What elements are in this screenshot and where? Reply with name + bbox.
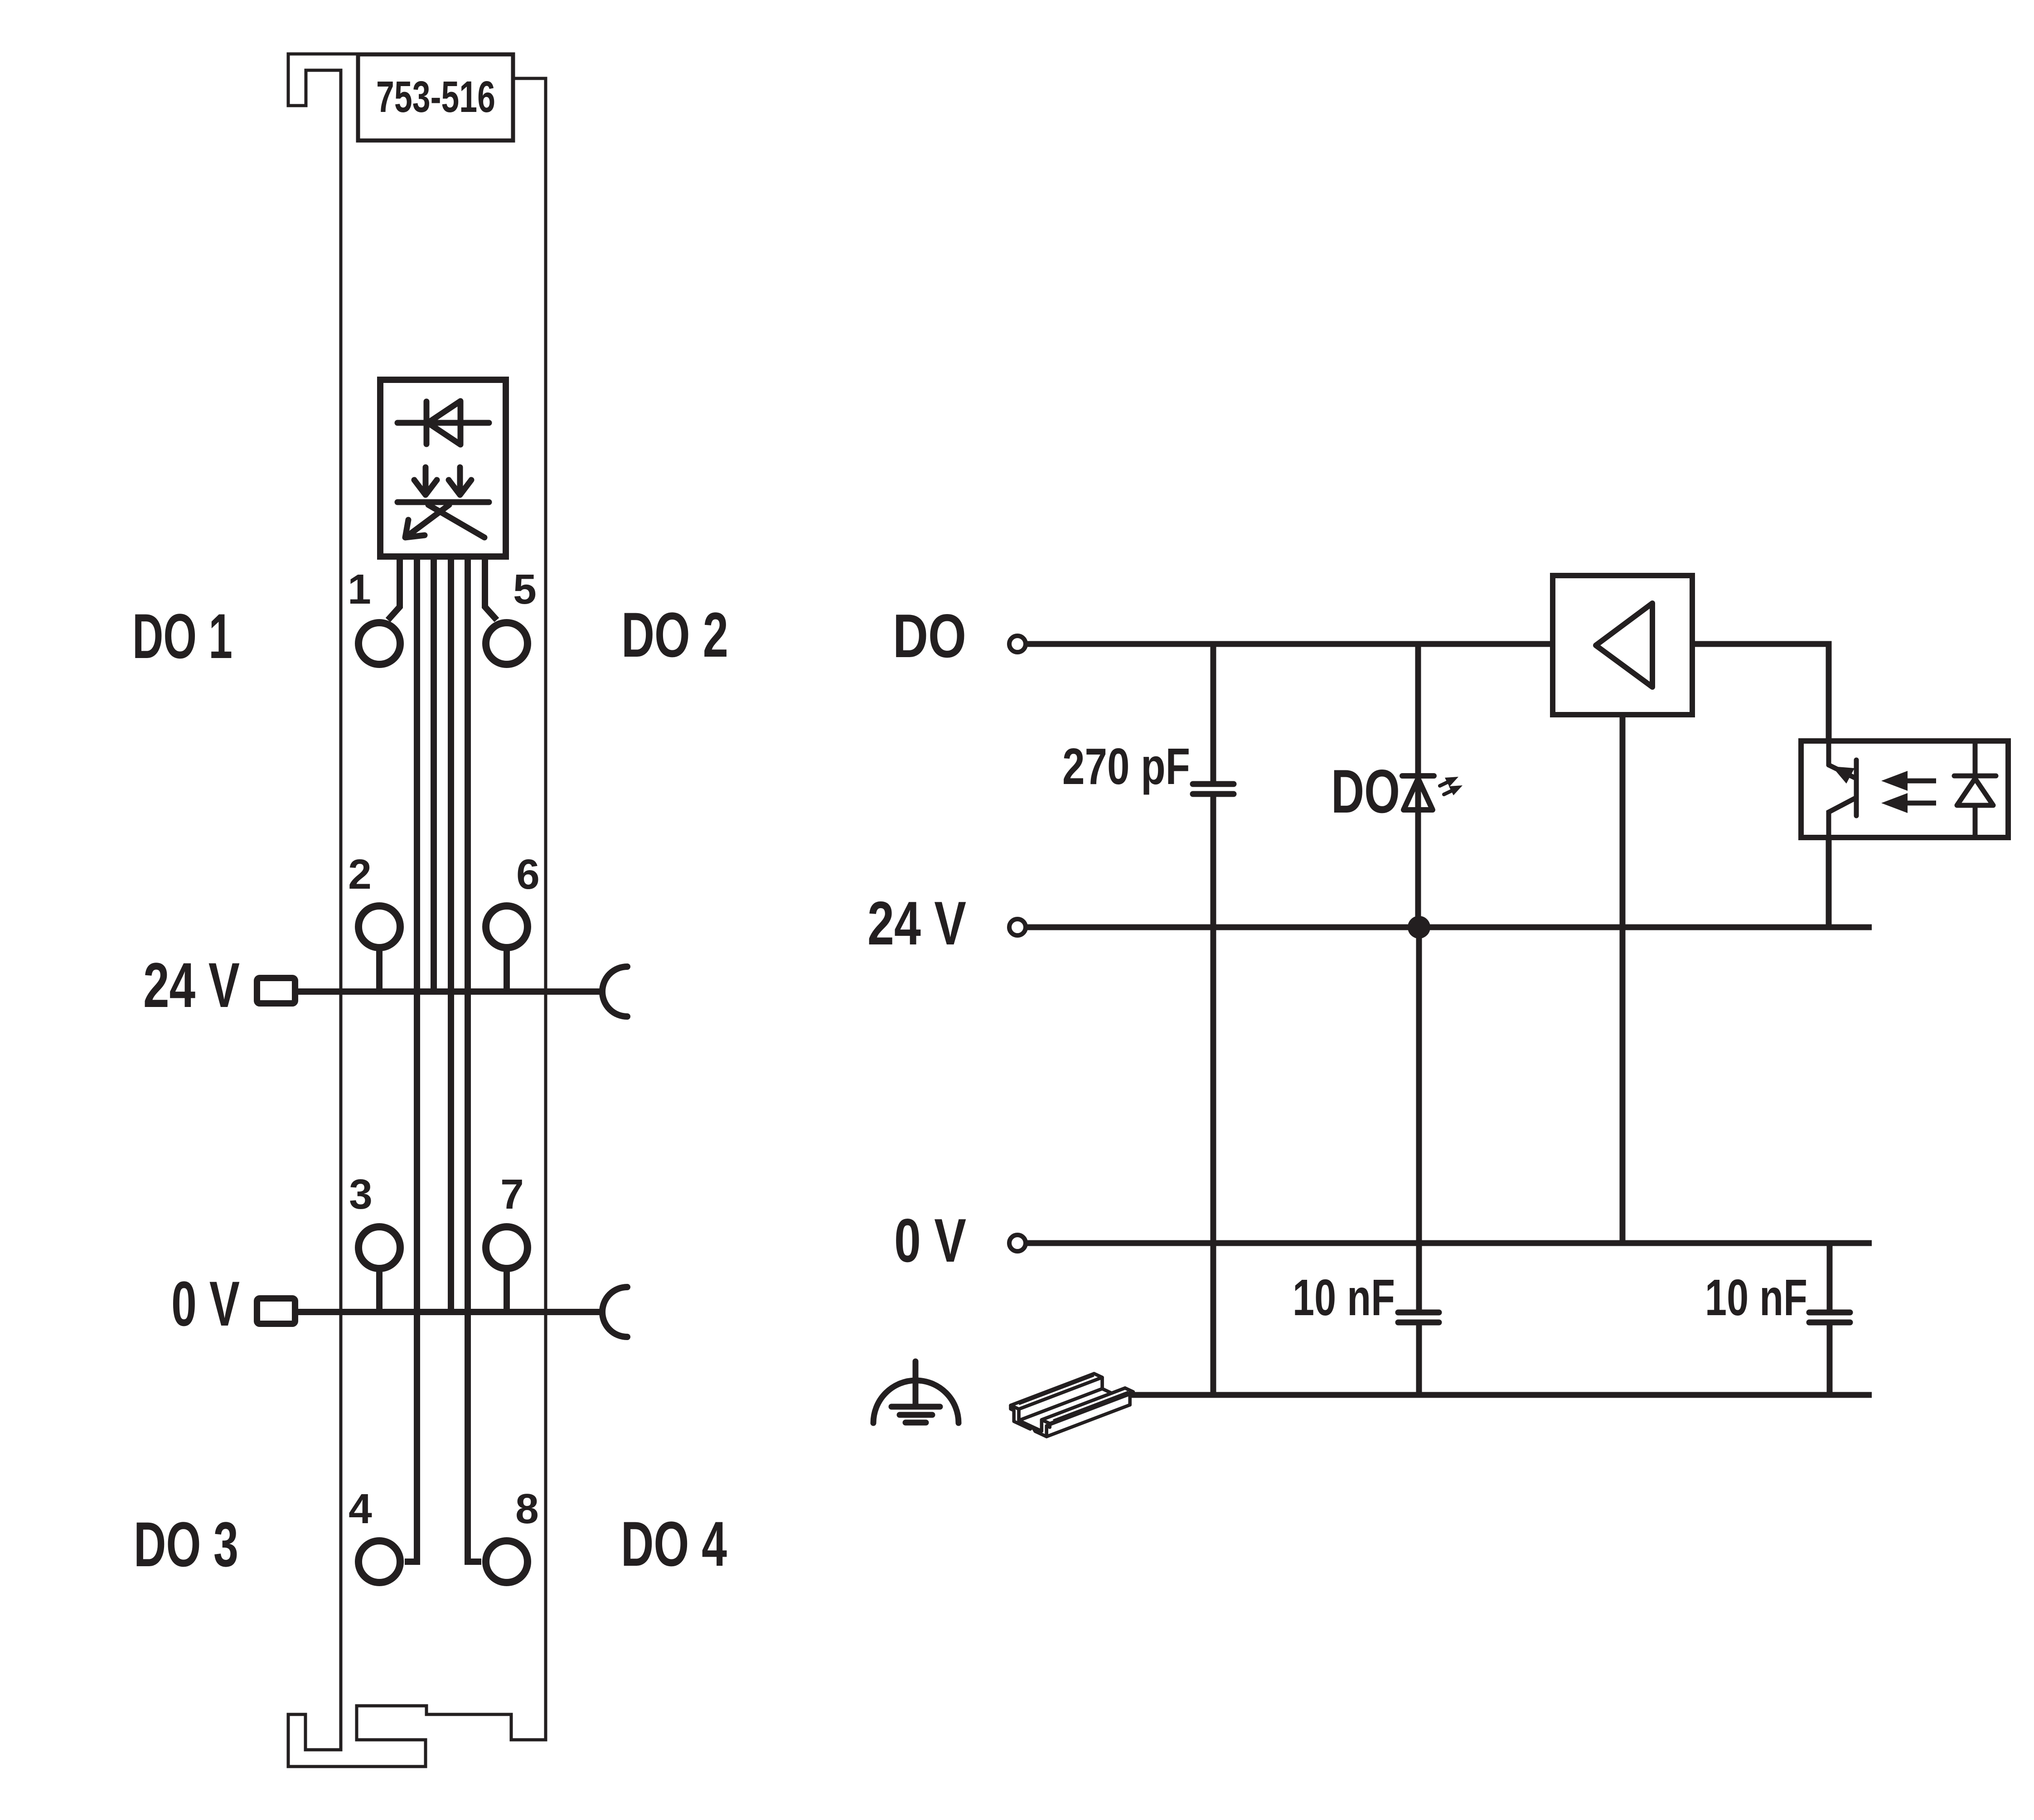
24V bus terminal square	[257, 978, 295, 1003]
terminal circle pin 5	[486, 623, 528, 664]
LED light rays	[1440, 781, 1454, 794]
LED indicator box	[380, 380, 506, 557]
svg-text:10 nF: 10 nF	[1293, 1269, 1395, 1326]
svg-text:0 V: 0 V	[894, 1206, 966, 1275]
wire leg pin 8	[468, 558, 481, 1562]
amplifier box	[1553, 576, 1692, 715]
svg-text:DO 3: DO 3	[134, 1509, 238, 1580]
terminal circle pin 6	[486, 906, 528, 948]
wire DO line left	[1027, 641, 1553, 647]
wire stem pin 2	[376, 950, 383, 991]
LED arrows symbol in LED box	[397, 467, 489, 537]
svg-text:0 V: 0 V	[171, 1268, 240, 1339]
DO input terminal	[1009, 636, 1026, 652]
svg-text:1: 1	[348, 566, 371, 613]
terminal circle pin 4	[358, 1541, 400, 1583]
wire leg to 0V bus	[448, 558, 454, 1312]
terminal circle pin 1	[358, 623, 400, 664]
earth (ground) symbol	[873, 1361, 959, 1423]
svg-text:24 V: 24 V	[867, 889, 966, 958]
terminal circle pin 8	[486, 1541, 528, 1583]
capacitor 10 nF (left) plates	[1398, 1312, 1439, 1322]
wire 10nF right branch upper	[1827, 1243, 1833, 1310]
wire 270pF branch lower	[1211, 797, 1216, 1395]
wire leg pin 4	[405, 558, 417, 1562]
wire LED branch	[1415, 644, 1421, 927]
24V input terminal	[1009, 919, 1026, 935]
terminal circle pin 3	[358, 1227, 400, 1268]
svg-text:7: 7	[500, 1171, 524, 1218]
opto light arrows	[1906, 781, 1936, 803]
amplifier triangle	[1596, 603, 1652, 687]
wire 270pF branch upper	[1211, 644, 1216, 781]
svg-text:3: 3	[349, 1171, 373, 1218]
wire stem pin 6	[504, 950, 510, 991]
capacitor 270 pF plates	[1193, 784, 1234, 794]
wire leg pin 1	[388, 558, 400, 620]
svg-text:10 nF: 10 nF	[1705, 1269, 1807, 1326]
0V input terminal	[1009, 1235, 1026, 1251]
DIN rail symbol	[1011, 1374, 1133, 1437]
wire 10nF left branch upper	[1416, 927, 1422, 1310]
terminal circle pin 2	[358, 906, 400, 948]
wire 24V line	[1027, 925, 1872, 930]
wire stem pin 7	[504, 1271, 510, 1311]
module label box	[358, 54, 513, 140]
24V bus jumper contact arc	[602, 967, 627, 1016]
wire 10nF left branch lower	[1416, 1325, 1422, 1395]
status LED symbol	[1402, 776, 1434, 810]
optocoupler box	[1801, 741, 2008, 837]
wire leg pin 5	[485, 558, 497, 620]
svg-text:753-516: 753-516	[376, 72, 495, 121]
svg-text:6: 6	[516, 851, 540, 898]
svg-text:4: 4	[349, 1485, 372, 1532]
terminal circle pin 7	[486, 1227, 528, 1268]
svg-text:DO 4: DO 4	[621, 1508, 727, 1579]
wire 0V line	[1027, 1240, 1872, 1246]
capacitor 10 nF (right) plates	[1809, 1312, 1850, 1322]
svg-text:DO 1: DO 1	[132, 600, 232, 672]
svg-text:24 V: 24 V	[143, 949, 240, 1021]
svg-text:270 pF: 270 pF	[1062, 738, 1190, 795]
24V bus bar	[298, 988, 603, 995]
0V bus terminal square	[257, 1298, 295, 1324]
module internal wires (6 legs)	[379, 558, 507, 1562]
junction dot 24V/LED	[1408, 916, 1430, 939]
wire 10nF right branch lower	[1827, 1325, 1833, 1395]
wire opto emitter to 24V	[1826, 837, 1832, 927]
wire leg to 24V bus	[431, 558, 437, 992]
wire stem pin 3	[376, 1271, 383, 1311]
0V bus bar	[298, 1309, 603, 1315]
opto phototransistor	[1829, 741, 1856, 837]
svg-text:DO 2: DO 2	[621, 599, 728, 670]
svg-text:DO: DO	[893, 601, 966, 670]
0V bus jumper contact arc	[602, 1287, 627, 1337]
wire ground rail	[1108, 1392, 1872, 1398]
module 753-516 outline	[288, 54, 546, 1767]
svg-text:DO: DO	[1331, 757, 1400, 826]
svg-text:2: 2	[348, 851, 372, 898]
wire amp to 0V	[1620, 715, 1626, 1243]
svg-text:5: 5	[513, 566, 537, 613]
wire DO line amp output	[1692, 644, 1829, 765]
diode symbol in LED box	[397, 401, 489, 445]
svg-text:8: 8	[515, 1485, 539, 1532]
opto photodiode	[1954, 741, 1996, 837]
